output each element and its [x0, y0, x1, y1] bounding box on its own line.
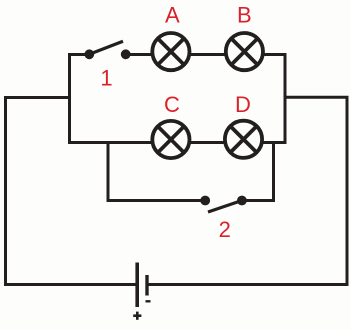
wire switch-2 branch: right segment — [242, 199, 275, 202]
lamp B — [226, 33, 263, 70]
battery positive plate — [135, 263, 139, 308]
svg-text:D: D — [235, 92, 251, 117]
wire top branch: lamp B to right corner — [263, 53, 286, 56]
wire left inner vertical — [68, 53, 71, 144]
wire right inner vertical — [284, 53, 287, 144]
battery minus label — [146, 300, 151, 302]
wire middle branch: lamp C to lamp D — [190, 141, 225, 144]
svg-text:C: C — [164, 92, 180, 117]
svg-text:A: A — [165, 2, 180, 27]
svg-text:B: B — [237, 3, 252, 28]
lamp A — [152, 33, 189, 70]
wire left connector — [4, 96, 71, 99]
svg-text:1: 1 — [100, 66, 112, 91]
wire switch-2 branch: left segment — [107, 199, 206, 202]
battery plus label — [133, 312, 141, 320]
wire top branch: lamp A to lamp B — [190, 53, 226, 56]
wire top branch: corner to switch 1 — [68, 53, 89, 56]
wire switch-2 loop left vertical — [107, 141, 110, 202]
wire right outer vertical — [346, 96, 349, 286]
lamp D — [225, 121, 262, 158]
switch 1 — [84, 41, 130, 59]
wire right connector — [284, 96, 349, 99]
wire bottom right segment — [147, 283, 349, 286]
wire bottom left segment — [4, 283, 137, 286]
wire left outer vertical — [4, 96, 7, 286]
wire top branch: switch 1 to lamp A — [126, 53, 152, 56]
switch 2 — [200, 196, 247, 212]
battery negative plate — [145, 275, 148, 296]
wire switch-2 loop right vertical — [272, 141, 275, 202]
lamp C — [152, 121, 189, 158]
wire middle branch: lamp D to right corner — [263, 141, 287, 144]
svg-text:2: 2 — [219, 217, 231, 242]
wire middle branch: left corner to lamp C — [68, 141, 152, 144]
